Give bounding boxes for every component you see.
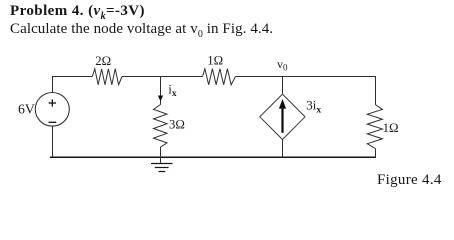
- dependent current source U1 arrow: [281, 107, 283, 133]
- svg-text:3ix: 3ix: [306, 98, 321, 116]
- wire between 2ohm and 1ohm resistors: [122, 76, 203, 78]
- wire left vertical upper (source top to rail): [52, 76, 54, 93]
- resistor R3 3ohm (vertical): [154, 105, 168, 148]
- dependent current source U1 diamond: [260, 94, 305, 139]
- wire right vertical lower: [375, 149, 377, 159]
- wire bottom rail: [50, 156, 376, 158]
- current arrow ix (arrowhead on middle branch): [158, 96, 163, 102]
- svg-text:3Ω: 3Ω: [169, 118, 185, 132]
- svg-text:1Ω: 1Ω: [383, 121, 399, 135]
- problem title text: [10, 3, 145, 20]
- wire right vertical upper: [375, 76, 377, 105]
- problem statement text: [10, 21, 273, 38]
- svg-text:ix: ix: [168, 82, 177, 100]
- resistor R2 1ohm (horizontal): [203, 69, 236, 85]
- svg-text:6V: 6V: [18, 102, 35, 117]
- voltage source V1 plus sign: [49, 99, 56, 106]
- svg-text:2Ω: 2Ω: [95, 54, 111, 68]
- voltage source V1 minus sign: [49, 121, 57, 123]
- wire dependent source bottom lead: [282, 140, 284, 159]
- resistor R1 2ohm (horizontal): [92, 69, 122, 85]
- svg-text:v0: v0: [277, 57, 288, 73]
- figure caption: [377, 172, 442, 189]
- wire dependent source top lead: [282, 76, 284, 94]
- svg-text:1Ω: 1Ω: [207, 54, 223, 68]
- ground stub wire: [160, 157, 162, 164]
- wire left vertical lower (source bottom to bottom rail): [52, 126, 54, 158]
- voltage source V1 circle: [35, 93, 69, 127]
- wire top-right segment: [236, 76, 376, 78]
- wire top-left segment: [52, 76, 92, 78]
- ground symbol: [151, 164, 173, 172]
- wire middle vertical (ix branch): [160, 76, 162, 105]
- resistor R4 1ohm (vertical right): [367, 105, 382, 149]
- wire middle vertical lower (3ohm to bottom rail): [160, 147, 162, 158]
